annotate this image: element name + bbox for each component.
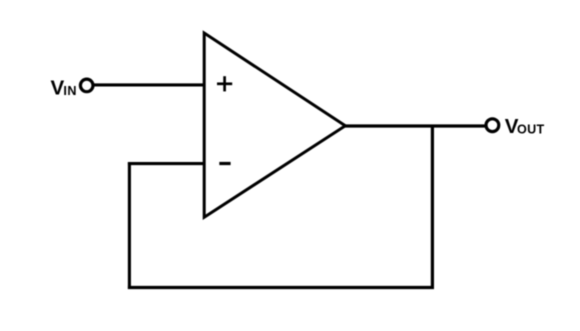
svg-text:V: V: [51, 76, 65, 99]
svg-text:IN: IN: [63, 84, 77, 98]
svg-text:OUT: OUT: [517, 123, 544, 137]
